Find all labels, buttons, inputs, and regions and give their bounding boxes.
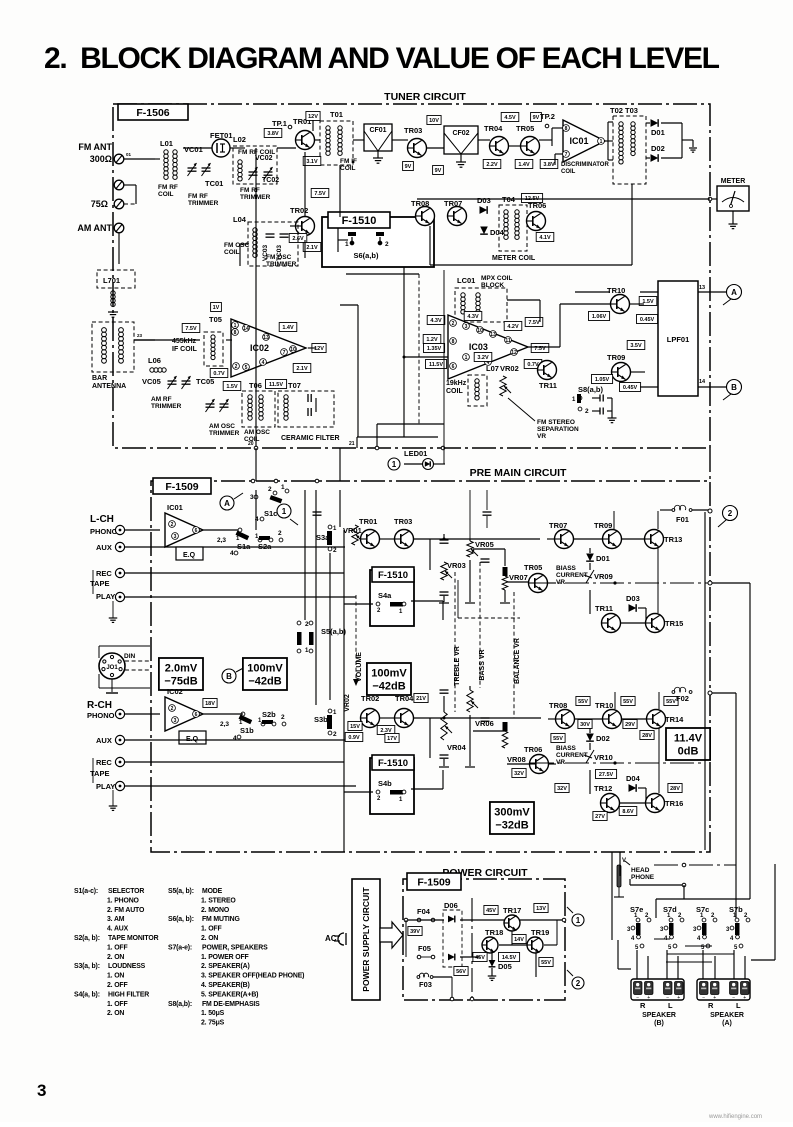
svg-text:4: 4 <box>230 550 234 557</box>
svg-text:MPX COIL: MPX COIL <box>481 275 512 282</box>
svg-text:S4b: S4b <box>378 779 392 788</box>
wire out L down <box>589 548 591 553</box>
wire cf01 to tr03 <box>392 139 408 141</box>
svg-text:TR04: TR04 <box>484 124 503 133</box>
rail bottom premain <box>619 852 621 879</box>
arrow 2 power <box>567 970 573 976</box>
VR04 pot <box>441 712 447 740</box>
svg-text:TRIMMER: TRIMMER <box>151 403 182 410</box>
svg-text:2. BLOCK DIAGRAM AND VALUE OF: 2. BLOCK DIAGRAM AND VALUE OF EACH LEVEL <box>44 42 720 75</box>
value 45V q <box>473 953 487 962</box>
value 0.7V f <box>524 360 542 369</box>
svg-text:2. FM AUTO: 2. FM AUTO <box>107 907 145 914</box>
svg-text:FM RF: FM RF <box>188 193 208 200</box>
diode D03 premain <box>629 604 637 612</box>
wire din right <box>125 660 150 662</box>
svg-text:VR02: VR02 <box>344 694 351 712</box>
transistor TR17 <box>504 915 520 931</box>
bar antenna coil 1 <box>102 328 107 364</box>
MPX dashed box <box>455 288 507 322</box>
rec L jack <box>115 568 124 577</box>
svg-text:TR15: TR15 <box>665 619 683 628</box>
svg-text:A: A <box>731 288 737 297</box>
svg-text:1. OFF: 1. OFF <box>201 926 222 933</box>
svg-text:(A): (A) <box>722 1020 732 1027</box>
wire ic02 out <box>203 713 243 715</box>
transistor TR03 tuner <box>408 139 427 158</box>
svg-text:55V: 55V <box>578 699 588 705</box>
BASS VR dashed <box>479 562 481 688</box>
svg-text:AM RF: AM RF <box>151 396 172 403</box>
19kHz dashed box <box>468 375 487 406</box>
svg-text:TP.1: TP.1 <box>272 119 287 128</box>
fuse F05 <box>417 955 421 959</box>
wire t02 down <box>575 291 610 293</box>
wire tr01 link <box>379 538 395 540</box>
svg-text:11: 11 <box>505 338 511 344</box>
svg-text:COIL: COIL <box>446 388 463 395</box>
T07 coil <box>284 395 288 420</box>
svg-text:E.Q: E.Q <box>183 552 196 559</box>
arrow B premain <box>236 666 247 672</box>
tape R bracket <box>92 758 94 783</box>
value 4.5V <box>501 113 519 122</box>
svg-text:VR10: VR10 <box>594 753 613 762</box>
circled 1 led <box>388 458 400 470</box>
vertical 340 run <box>339 165 341 217</box>
svg-text:27.5V: 27.5V <box>599 772 614 778</box>
svg-text:2. MONO: 2. MONO <box>201 907 230 914</box>
svg-text:VR04: VR04 <box>447 743 467 752</box>
value 2.1V c <box>293 364 311 373</box>
svg-text:BAR: BAR <box>92 375 107 382</box>
value 28V a <box>640 731 654 740</box>
svg-text:12V: 12V <box>314 346 324 352</box>
svg-text:300Ω: 300Ω <box>90 154 112 164</box>
module F-1510 mid label <box>372 567 414 582</box>
value 13V <box>534 904 548 913</box>
svg-text:2: 2 <box>171 522 174 528</box>
svg-text:S5(a,b): S5(a,b) <box>321 627 347 636</box>
value 1.05V h <box>592 375 613 384</box>
L02 coil <box>238 160 242 181</box>
svg-text:TUNER CIRCUIT: TUNER CIRCUIT <box>384 91 466 103</box>
svg-text:TR11: TR11 <box>539 381 557 390</box>
wire LPF to B <box>698 386 726 388</box>
IC03 pins <box>450 320 457 327</box>
svg-text:1: 1 <box>345 241 349 248</box>
svg-text:HEAD: HEAD <box>631 867 650 874</box>
svg-text:T02 T03: T02 T03 <box>610 106 638 115</box>
VR02 pot <box>500 376 506 396</box>
value 32V a <box>512 769 526 778</box>
T06 dashed box <box>242 391 275 427</box>
circled 1 premain <box>277 504 291 518</box>
node premain top a <box>251 479 255 483</box>
wire meter line <box>417 198 710 200</box>
value 27.5V <box>596 770 617 779</box>
IC01 pm pins <box>169 521 176 528</box>
value 2.2V <box>483 160 501 169</box>
module F-1510 low label <box>372 755 414 770</box>
separation arrow <box>508 398 535 421</box>
svg-text:FM OSC: FM OSC <box>266 254 292 261</box>
svg-text:TR06: TR06 <box>528 201 546 210</box>
svg-text:2. SPEAKER(A): 2. SPEAKER(A) <box>201 963 250 970</box>
wire f01 right <box>692 509 710 511</box>
svg-text:8.6V: 8.6V <box>622 809 634 815</box>
svg-text:ANTENNA: ANTENNA <box>92 383 126 390</box>
svg-text:13: 13 <box>699 285 705 291</box>
wire CF01 gnd <box>377 151 379 158</box>
VR08 res <box>502 731 508 748</box>
phono L jack <box>115 525 124 534</box>
diode D07 <box>448 954 455 961</box>
value 3.1V <box>303 157 321 166</box>
svg-text:IC01: IC01 <box>569 136 588 146</box>
value 12V t <box>306 112 320 121</box>
cap col treble R <box>440 690 449 693</box>
svg-text:SEPARATION: SEPARATION <box>537 426 579 433</box>
svg-text:2. ON: 2. ON <box>201 935 218 942</box>
wire aux L <box>125 546 345 548</box>
wire right rail node <box>710 582 750 584</box>
VR10 sym <box>586 750 594 763</box>
svg-text:L02: L02 <box>233 135 246 144</box>
svg-text:4. AUX: 4. AUX <box>107 926 129 933</box>
F02 fuse <box>672 687 692 693</box>
diode D04 premain <box>629 784 637 792</box>
value 7.5V <box>311 189 329 198</box>
svg-text:S6(a, b):: S6(a, b): <box>168 916 194 923</box>
play R shield gnd <box>112 790 114 806</box>
svg-text:+: + <box>743 995 746 1001</box>
svg-text:T07: T07 <box>288 381 301 390</box>
value 7.5V e <box>525 318 543 327</box>
svg-text:L04: L04 <box>233 215 247 224</box>
transistor TR16 <box>646 794 665 813</box>
svg-text:9V: 9V <box>435 168 442 174</box>
svg-text:27V: 27V <box>595 814 605 820</box>
transistor TR08 premain <box>556 710 575 729</box>
T04 dashed box <box>499 205 527 251</box>
svg-text:3: 3 <box>37 1081 46 1100</box>
svg-text:METER: METER <box>721 178 746 185</box>
value -55V <box>539 958 553 967</box>
value 1.35V d <box>424 344 445 353</box>
svg-text:1.2V: 1.2V <box>426 337 438 343</box>
TREBLE VR dashed <box>454 572 456 712</box>
L01 coil a <box>164 150 168 180</box>
VC01 trimmer <box>188 168 197 171</box>
TC05 trimmer <box>182 381 191 384</box>
IC02 pins <box>232 322 239 329</box>
svg-text:PRE MAIN CIRCUIT: PRE MAIN CIRCUIT <box>470 467 567 479</box>
svg-text:−: − <box>732 995 735 1001</box>
svg-text:REC: REC <box>96 758 112 767</box>
diode D06 <box>448 916 455 923</box>
cap col treble L <box>440 540 449 543</box>
svg-text:JO1: JO1 <box>106 665 118 671</box>
svg-text:FM DE-EMPHASIS: FM DE-EMPHASIS <box>202 1001 260 1008</box>
svg-text:1.4V: 1.4V <box>518 162 530 168</box>
svg-text:VR06: VR06 <box>475 719 494 728</box>
svg-text:21V: 21V <box>416 696 426 702</box>
svg-text:3.8V: 3.8V <box>267 131 279 137</box>
svg-text:L: L <box>736 1001 741 1010</box>
value 1.5V g <box>639 297 657 306</box>
T04 coil b <box>515 210 519 240</box>
svg-text:13: 13 <box>263 335 269 341</box>
chain seg tone L <box>458 617 520 619</box>
T03 coil <box>631 122 635 156</box>
svg-text:TRIMMER: TRIMMER <box>188 200 219 207</box>
value 2.6V <box>289 234 307 243</box>
value 45V p <box>484 906 498 915</box>
svg-text:12: 12 <box>511 350 517 356</box>
play L jack <box>115 592 124 601</box>
arrow 1 power <box>567 907 573 913</box>
speaker wires top <box>654 864 736 866</box>
svg-text:19kHz: 19kHz <box>446 380 467 387</box>
bias rail L <box>530 582 708 584</box>
svg-text:28V: 28V <box>670 786 680 792</box>
svg-text:TR02: TR02 <box>361 694 379 703</box>
tape L bracket <box>92 570 94 594</box>
transistor TR06 premain <box>530 755 549 774</box>
wire out R down <box>589 728 591 733</box>
svg-text:TAPE MONITOR: TAPE MONITOR <box>108 935 159 942</box>
wire TR01 up <box>312 120 314 131</box>
wire rec L <box>125 572 344 574</box>
S4a contacts <box>376 602 380 606</box>
wire play R <box>125 785 356 787</box>
gnd balance L <box>504 590 506 602</box>
svg-text:32V: 32V <box>557 786 567 792</box>
svg-text:TR10: TR10 <box>595 701 613 710</box>
wire power row1 <box>406 919 444 921</box>
svg-text:COIL: COIL <box>340 165 356 172</box>
meter box <box>717 186 749 211</box>
svg-text:+: + <box>677 995 680 1001</box>
svg-text:3.1V: 3.1V <box>306 159 318 165</box>
svg-text:13: 13 <box>490 332 496 338</box>
wire ic03 feed vertical <box>403 267 405 437</box>
svg-text:2: 2 <box>333 731 337 738</box>
svg-text:VR02: VR02 <box>500 364 519 373</box>
svg-text:DIN: DIN <box>124 653 136 660</box>
value 15V <box>348 722 362 731</box>
svg-text:18V: 18V <box>205 701 215 707</box>
svg-text:R-CH: R-CH <box>87 700 112 711</box>
svg-text:BIASS: BIASS <box>556 565 577 572</box>
phono R jack <box>115 709 124 718</box>
svg-text:FM MUTING: FM MUTING <box>202 916 240 923</box>
headphone jack <box>617 865 621 887</box>
svg-text:CF02: CF02 <box>452 130 469 137</box>
wire mpx to ic03 <box>507 299 540 301</box>
svg-text:D02: D02 <box>651 144 665 153</box>
svg-text:2: 2 <box>171 706 174 712</box>
svg-text:PHONO: PHONO <box>90 527 118 536</box>
svg-text:FM RF: FM RF <box>240 187 260 194</box>
value 1.2V d <box>423 335 441 344</box>
svg-text:1. ON: 1. ON <box>107 973 124 980</box>
svg-text:LC01: LC01 <box>457 276 475 285</box>
svg-text:2: 2 <box>281 714 285 721</box>
T01 coil a <box>326 126 330 156</box>
L701 box <box>97 270 135 288</box>
svg-text:PHONO: PHONO <box>87 711 115 720</box>
svg-text:TR02: TR02 <box>290 206 308 215</box>
svg-text:2,3: 2,3 <box>217 537 226 544</box>
wire ic02 out <box>308 347 316 349</box>
svg-text:2,3: 2,3 <box>220 721 229 728</box>
svg-text:L: L <box>668 1001 673 1010</box>
svg-text:56V: 56V <box>456 969 466 975</box>
level box 100mV mid <box>367 663 411 695</box>
svg-text:D02: D02 <box>596 734 610 743</box>
svg-text:0dB: 0dB <box>678 746 699 758</box>
transistor TR01 premain <box>361 530 380 549</box>
svg-text:7: 7 <box>565 152 568 158</box>
headphone arrow <box>625 861 630 865</box>
svg-text:3: 3 <box>174 718 177 724</box>
svg-text:HIGH FILTER: HIGH FILTER <box>108 991 149 998</box>
19k coil <box>475 379 479 400</box>
svg-text:S7(a-e):: S7(a-e): <box>168 944 192 951</box>
svg-text:28V: 28V <box>642 733 652 739</box>
transistor TR10 tuner <box>611 295 630 314</box>
value 55V tr08 <box>576 697 590 706</box>
svg-text:VC01: VC01 <box>184 145 203 154</box>
rec R jack <box>115 757 124 766</box>
T02T03 dashed box <box>613 116 646 184</box>
transistor TR09 premain <box>603 530 622 549</box>
svg-text:2: 2 <box>585 408 589 415</box>
svg-text:CERAMIC FILTER: CERAMIC FILTER <box>281 435 340 442</box>
svg-text:3. SPEAKER OFF(HEAD PHONE): 3. SPEAKER OFF(HEAD PHONE) <box>201 973 304 980</box>
transistor TR05 premain <box>529 574 548 593</box>
arrow A premain <box>234 493 243 499</box>
value 7.5V c <box>182 324 200 333</box>
speaker left rail <box>611 852 613 940</box>
svg-text:S5(a, b):: S5(a, b): <box>168 888 194 895</box>
DIN connector JO1 <box>99 653 125 679</box>
play L shield gnd <box>112 601 114 618</box>
T02 coil <box>619 122 623 164</box>
diode D02 <box>651 154 659 162</box>
value 9V b <box>433 166 444 175</box>
wire CF02 gnd <box>460 154 462 162</box>
circled A premain <box>220 496 234 510</box>
power wires2 <box>460 956 480 958</box>
transistor TR08 tuner <box>416 207 435 226</box>
svg-text:PLAY: PLAY <box>96 592 115 601</box>
svg-text:3: 3 <box>174 534 177 540</box>
svg-text:D05: D05 <box>498 962 512 971</box>
CF02 box <box>444 126 478 154</box>
svg-text:F-1510: F-1510 <box>378 758 408 769</box>
BALANCE VR dashed <box>513 592 515 718</box>
svg-text:REC: REC <box>96 569 112 578</box>
wire premain link left <box>255 448 257 481</box>
svg-text:TR09: TR09 <box>607 353 625 362</box>
value 4.1V <box>536 233 554 242</box>
svg-text:VR09: VR09 <box>594 572 613 581</box>
svg-text:TR04: TR04 <box>395 694 414 703</box>
svg-text:75Ω: 75Ω <box>91 199 108 209</box>
svg-text:14: 14 <box>243 326 249 332</box>
circled 2 power <box>572 977 584 989</box>
svg-text:POWER SUPPLY CIRCUIT: POWER SUPPLY CIRCUIT <box>361 887 371 992</box>
svg-text:VR07: VR07 <box>509 573 528 582</box>
value 39V <box>408 927 422 936</box>
svg-text:TRIMMER: TRIMMER <box>266 261 297 268</box>
svg-text:1. OFF: 1. OFF <box>107 944 128 951</box>
svg-text:4.3V: 4.3V <box>467 314 479 320</box>
svg-text:IC01: IC01 <box>167 503 183 512</box>
svg-text:CF01: CF01 <box>369 127 386 134</box>
speaker terminal block B <box>631 979 684 1000</box>
svg-text:IF COIL: IF COIL <box>172 346 198 353</box>
svg-text:1: 1 <box>234 323 237 329</box>
svg-text:S1c: S1c <box>264 509 277 518</box>
svg-text:39V: 39V <box>410 929 420 935</box>
svg-text:100mV: 100mV <box>371 668 407 680</box>
S8 contacts <box>578 396 582 400</box>
speaker routing wires <box>654 938 670 940</box>
svg-text:VOLUME: VOLUME <box>356 652 363 682</box>
transistor TR04 premain <box>395 709 414 728</box>
svg-text:B: B <box>226 672 232 681</box>
wire S6 left <box>338 239 348 241</box>
svg-text:COIL: COIL <box>561 169 576 175</box>
wire tone L <box>430 538 447 540</box>
transistor TR01 <box>296 131 315 150</box>
wire din down <box>98 674 100 688</box>
value 32V b <box>555 784 569 793</box>
svg-text:TR16: TR16 <box>665 799 683 808</box>
cap bass R <box>481 718 490 721</box>
wire s6 bottom link <box>346 273 419 275</box>
VR03 pot <box>441 562 447 580</box>
wire vr07 to tr05 <box>507 581 529 583</box>
EQ box R <box>179 731 206 744</box>
transistor TR02 tuner <box>296 217 315 236</box>
POWER SUPPLY CIRCUIT box <box>352 879 380 1000</box>
svg-text:L-CH: L-CH <box>90 514 114 525</box>
svg-text:TR06: TR06 <box>524 745 542 754</box>
svg-text:TC01: TC01 <box>205 179 223 188</box>
svg-text:S2(a, b):: S2(a, b): <box>74 935 100 942</box>
svg-text:IC02: IC02 <box>167 687 183 696</box>
svg-text:TR10: TR10 <box>607 286 625 295</box>
S4b contacts <box>376 790 380 794</box>
svg-text:TR05: TR05 <box>524 563 542 572</box>
svg-text:SPEAKER: SPEAKER <box>642 1012 676 1019</box>
T06 coil a <box>248 395 252 420</box>
svg-text:3: 3 <box>465 324 468 330</box>
svg-text:0.7V: 0.7V <box>213 371 225 377</box>
wire tr02 link <box>379 717 395 719</box>
value 3.8V <box>264 129 282 138</box>
svg-text:30V: 30V <box>580 722 590 728</box>
svg-text:21: 21 <box>349 441 355 447</box>
svg-text:SPEAKER: SPEAKER <box>710 1012 744 1019</box>
wire driver R <box>548 763 556 765</box>
svg-text:F-1509: F-1509 <box>417 876 450 888</box>
